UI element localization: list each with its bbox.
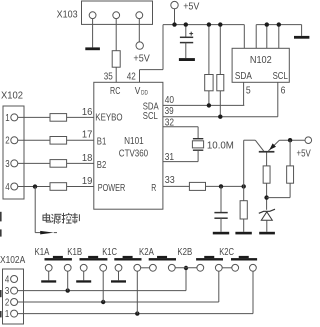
svg-text:B1: B1 (97, 137, 107, 148)
svg-text:35: 35 (104, 72, 113, 83)
svg-text:1: 1 (5, 113, 10, 124)
svg-text:DD: DD (141, 89, 148, 96)
svg-text:SCL: SCL (143, 111, 158, 122)
svg-text:+5V: +5V (183, 2, 199, 13)
svg-text:SDA: SDA (235, 71, 252, 82)
svg-text:39: 39 (165, 106, 174, 117)
svg-text:N102: N102 (250, 55, 272, 66)
svg-text:K2C: K2C (219, 247, 234, 258)
svg-text:B2: B2 (97, 160, 107, 171)
svg-text:16: 16 (82, 107, 93, 118)
svg-text:2: 2 (5, 297, 10, 308)
svg-text:X102: X102 (1, 91, 23, 102)
svg-text:CTV360: CTV360 (119, 148, 149, 159)
svg-text:18: 18 (82, 153, 93, 164)
svg-text:5: 5 (246, 86, 251, 97)
svg-text:N101: N101 (124, 136, 144, 147)
svg-text:K2A: K2A (139, 247, 154, 258)
svg-text:19: 19 (82, 176, 93, 187)
svg-text:+5V: +5V (133, 54, 150, 65)
svg-text:3: 3 (5, 286, 10, 297)
svg-text:6: 6 (281, 86, 286, 97)
svg-text:V: V (135, 86, 141, 97)
svg-text:K1A: K1A (35, 247, 50, 258)
svg-text:17: 17 (82, 130, 93, 141)
svg-text:3: 3 (5, 159, 10, 170)
svg-text:2: 2 (5, 136, 10, 147)
svg-text:X103: X103 (57, 10, 78, 21)
svg-text:1: 1 (5, 309, 10, 320)
svg-text:SCL: SCL (273, 71, 288, 82)
svg-text:K1C: K1C (102, 247, 117, 258)
svg-text:K2B: K2B (177, 247, 192, 258)
svg-text:33: 33 (165, 175, 175, 186)
svg-text:X102A: X102A (0, 255, 25, 266)
svg-text:4: 4 (5, 182, 10, 193)
svg-text:42: 42 (127, 72, 136, 83)
svg-text:KEYBO: KEYBO (95, 113, 122, 124)
svg-text:RC: RC (110, 86, 120, 97)
svg-text:10.0M: 10.0M (207, 141, 234, 152)
svg-text:40: 40 (165, 95, 175, 106)
svg-text:4: 4 (5, 274, 10, 285)
svg-text:K1B: K1B (67, 247, 82, 258)
svg-text:R: R (151, 183, 156, 194)
svg-text:+5V: +5V (297, 149, 311, 160)
svg-text:POWER: POWER (98, 183, 126, 194)
